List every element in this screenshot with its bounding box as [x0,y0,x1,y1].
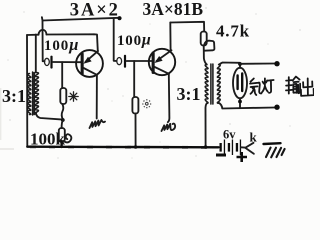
svg-text:3A×81B: 3A×81B [143,0,204,19]
transformer T2 core [211,64,213,104]
neon lamp electrode 1 [236,76,238,90]
wire bottom rail rough clumps [30,145,214,149]
wire vertical from rail1 to C1 [43,21,45,61]
resistor R1 stem from base wire [61,62,63,88]
wire 100k curl [63,134,71,142]
wire top rail 2 [170,22,204,32]
wire bottom rail [27,145,218,148]
battery B1 long bar 2 [232,140,233,156]
ground battery bar [264,142,281,145]
transformer T2 left winding [205,65,208,104]
battery B1 lead bar short1 [220,143,222,152]
neon lamp electrode 2 [241,74,243,92]
wire T2 secondary bottom lead [219,103,275,109]
svg-text:3:1: 3:1 [2,86,26,106]
svg-text:k: k [250,130,258,145]
label 输出 (output) [286,77,314,96]
battery B1 long bar 3 [240,140,241,156]
transistor Q2 circle [149,49,175,75]
wire C1 to Q1 base [53,61,81,63]
wire neon top lead [239,64,241,68]
resistor R2 box [132,97,138,114]
svg-text:4.7k: 4.7k [216,22,250,41]
wire vertical rail1 to C2 [114,18,117,61]
battery B1 short bar 2 [228,143,230,152]
svg-text:100μ: 100μ [117,32,152,49]
capacitor C1 100μ electrolytic loop plate [45,58,50,65]
wire C2 to Q2 base [127,60,152,62]
faint bottom-left mark [0,148,14,150]
wire neon bottom lead [239,98,241,107]
node T2/rail junction [204,145,208,149]
label R2 asterisk dotted [142,99,151,108]
battery B1 long bar 1 [224,140,225,156]
svg-text:6v: 6v [223,128,236,142]
wire crossover hop [39,30,47,35]
wire T1 secondary top lead [35,35,37,73]
wire output top line [240,63,275,65]
wire 100k bottom stem [60,142,62,147]
wire 4.7k curl to T2 primary [204,41,215,65]
node rail1 right end dot [117,16,121,20]
node output terminal top [274,61,279,66]
ground battery hatches [266,148,285,158]
scan noise speckles [7,7,301,159]
transistor Q2 emitter line with arrow [157,50,172,61]
transistor Q1 circle [76,50,103,77]
label R1 asterisk [69,92,78,101]
switch K [241,143,254,154]
transformer T1 right winding [34,73,38,115]
capacitor C2 bar plate [124,55,126,68]
capacitor C2 100μ electrolytic loop plate [117,58,122,65]
node output terminal bottom [274,105,279,110]
transistor Q1 collector line [84,68,97,75]
battery B1 short bar 3 [236,143,238,152]
node R2/rail junction [134,145,138,149]
transistor Q1 base bar [81,53,84,76]
wire Q1 emitter up to rail [94,34,98,51]
wire T1 secondary bottom lead to 100k [36,113,61,120]
wire Q2 collector down [168,74,170,123]
ground Q1 [90,120,105,128]
wire Q1 collector down [96,75,98,119]
neon lamp oval [233,68,247,99]
label plus [237,152,248,162]
capacitor C1 bar plate [50,56,52,69]
wire left rail horizontal y34 [27,33,94,36]
resistor 100k box [59,128,65,142]
wire left rail vertical [26,35,28,147]
left margin smudge [0,88,1,140]
transistor Q1 emitter line with arrow [86,51,99,62]
wire T2 secondary top lead [219,63,240,65]
ground Q2 [162,124,176,131]
transistor Q2 collector line [155,67,169,74]
label 氖灯 (neon lamp) [250,78,274,95]
node junction R1/100k/T1 [61,118,65,122]
label minus [216,154,226,157]
resistor R1 box [60,88,66,104]
node neon top junction [238,62,242,66]
wire junction to 100k box [62,120,63,128]
svg-text:100μ: 100μ [44,35,79,54]
svg-text:3:1: 3:1 [177,84,201,104]
transformer T2 right winding [217,65,220,104]
transformer T1 left winding [28,74,31,115]
node neon bottom junction [238,100,242,104]
resistor R2 stem [133,61,135,97]
wire R2 to bottom rail [135,114,137,147]
resistor 4.7k box [201,32,207,46]
wire top rail 1 [42,17,119,20]
wire Q2 emitter up [169,23,171,51]
wire T2 primary bottom to rail [205,104,206,147]
transistor Q2 base bar [152,52,155,75]
transformer T1 core [33,72,35,115]
wire R1 squiggle down to junction [62,104,64,120]
